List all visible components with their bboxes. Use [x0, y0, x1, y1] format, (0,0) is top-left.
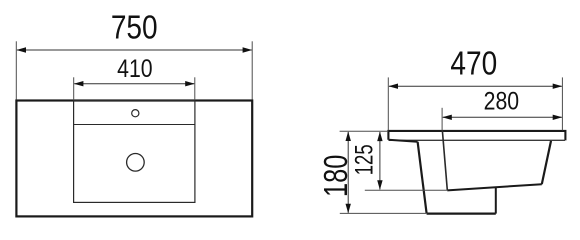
dim 125: top arrowhead	[377, 132, 382, 142]
dim 280: right arrowhead	[553, 115, 563, 120]
svg-text:280: 280	[484, 87, 519, 115]
dim 470: value label	[450, 45, 497, 82]
side view: slab front lip bottom edge	[388, 140, 417, 142]
dim 750: left arrowhead	[16, 47, 26, 52]
dim 180: dimension line	[347, 132, 349, 213]
front view: basin back-ledge divider line	[74, 124, 195, 126]
dim 280: left extension line	[441, 108, 443, 131]
svg-text:750: 750	[111, 10, 158, 47]
side view: drain box bottom	[427, 213, 496, 215]
dim 410: left extension line	[73, 77, 75, 100]
dim 410: dimension line	[74, 83, 194, 85]
front view: sink outer rectangle	[16, 101, 252, 217]
dim 750: value label	[111, 10, 158, 47]
dim 125: bottom arrowhead	[377, 180, 382, 190]
dim 750: left extension line	[15, 41, 17, 99]
front view: drain hole (large circle)	[127, 154, 145, 172]
dim 180: top arrowhead	[346, 131, 351, 141]
dim 280: left arrowhead	[442, 115, 452, 120]
side view: slab underside line	[389, 139, 565, 141]
dim 410: left arrowhead	[74, 81, 84, 86]
dim 125: bottom extension line	[365, 189, 448, 191]
dim 280: value label	[484, 87, 519, 115]
side view: countertop slab outline	[388, 131, 565, 141]
dim 470: left arrowhead	[388, 84, 398, 89]
dim 410: right extension line	[194, 77, 196, 100]
dim 180: value label (rotated)	[318, 155, 355, 197]
dim 750: dimension line	[17, 49, 252, 51]
dim 470: dimension line	[389, 85, 562, 87]
side view: basin inner front wall	[442, 131, 447, 190]
side view: drain box right edge	[495, 187, 497, 214]
side view: bowl rear wall	[542, 141, 551, 184]
dim 750: right extension line	[251, 41, 253, 99]
dim 180/125: shared top extension line	[340, 130, 389, 132]
dim 750: right arrowhead	[243, 47, 253, 52]
dim 125: dimension line	[379, 132, 381, 189]
front view: faucet hole (small circle)	[132, 110, 139, 117]
side view: bowl outer front wall	[418, 142, 427, 214]
svg-text:125: 125	[350, 144, 378, 175]
dim 410: value label	[117, 54, 152, 82]
side view: bowl bottom line	[447, 184, 542, 190]
dim 280: dimension line	[443, 116, 562, 118]
svg-text:470: 470	[450, 45, 497, 82]
dim 125: value label (rotated)	[350, 144, 378, 175]
dim 470: left extension line	[387, 77, 389, 130]
dim 470: right extension line	[561, 77, 563, 130]
dim 180: bottom extension line	[340, 212, 427, 214]
dim 180: bottom arrowhead	[346, 204, 351, 214]
dim 470: right arrowhead	[553, 84, 563, 89]
dim 410: right arrowhead	[185, 81, 195, 86]
svg-text:410: 410	[117, 54, 152, 82]
front view: basin inner rectangle	[74, 101, 195, 203]
